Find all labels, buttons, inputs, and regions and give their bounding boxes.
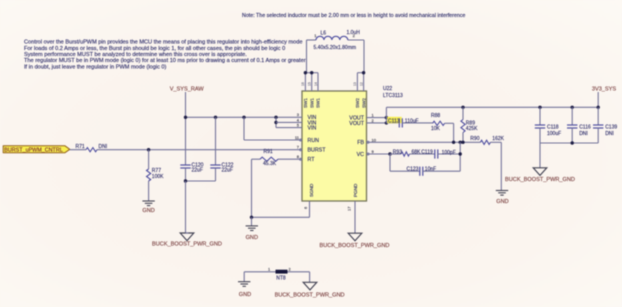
- svg-text:13: 13: [353, 82, 357, 86]
- svg-text:For loads of 0.2 Amps or less,: For loads of 0.2 Amps or less, the Burst…: [24, 46, 285, 52]
- svg-text:68K: 68K: [412, 150, 422, 156]
- svg-text:GND: GND: [246, 235, 258, 241]
- svg-text:C119: C119: [421, 150, 433, 156]
- svg-text:R77: R77: [152, 168, 161, 174]
- svg-text:162K: 162K: [492, 136, 504, 142]
- svg-text:425K: 425K: [466, 126, 478, 132]
- svg-text:DNI: DNI: [579, 131, 588, 137]
- svg-text:SW1: SW1: [309, 98, 314, 108]
- svg-text:VOUT: VOUT: [349, 121, 364, 127]
- svg-text:BUCK_BOOST_PWR_GND: BUCK_BOOST_PWR_GND: [152, 241, 222, 247]
- svg-text:SW2: SW2: [361, 98, 366, 108]
- svg-text:22uF: 22uF: [222, 168, 233, 174]
- svg-text:Note: The selected inductor mu: Note: The selected inductor must be 2.00…: [242, 13, 465, 19]
- svg-text:BUCK_BOOST_PWR_GND: BUCK_BOOST_PWR_GND: [505, 177, 575, 183]
- svg-text:14: 14: [314, 82, 318, 86]
- svg-text:5.40x5.20x1.80mm: 5.40x5.20x1.80mm: [314, 45, 357, 51]
- svg-text:RUN: RUN: [308, 138, 320, 144]
- svg-text:15: 15: [308, 82, 312, 86]
- svg-text:C118: C118: [547, 124, 559, 130]
- svg-text:BURST_uPWM_CNTRL: BURST_uPWM_CNTRL: [4, 148, 62, 154]
- svg-text:100K: 100K: [152, 174, 164, 180]
- svg-text:System performance MUST be ana: System performance MUST be analyzed to d…: [24, 52, 247, 58]
- svg-text:FB: FB: [357, 140, 364, 146]
- svg-text:PGND: PGND: [353, 183, 358, 197]
- svg-text:GND: GND: [142, 208, 154, 214]
- svg-text:BUCK_BOOST_PWR_GND: BUCK_BOOST_PWR_GND: [275, 293, 345, 299]
- svg-text:45.3K: 45.3K: [263, 161, 277, 167]
- svg-text:BUCK_BOOST_PWR_GND: BUCK_BOOST_PWR_GND: [320, 243, 390, 249]
- svg-text:GND: GND: [496, 199, 508, 205]
- svg-text:DNI: DNI: [99, 144, 108, 150]
- svg-text:Control over the Burst/uPWM pi: Control over the Burst/uPWM pin provides…: [24, 40, 302, 46]
- svg-text:GND: GND: [239, 292, 251, 298]
- svg-text:NT8: NT8: [276, 276, 286, 282]
- svg-text:12: 12: [359, 82, 363, 86]
- svg-text:17: 17: [347, 206, 352, 211]
- svg-text:VIN: VIN: [308, 126, 317, 132]
- svg-text:R90: R90: [470, 136, 479, 142]
- svg-text:C123: C123: [407, 166, 419, 172]
- svg-text:C113: C113: [388, 118, 400, 124]
- svg-text:10K: 10K: [431, 126, 441, 132]
- svg-text:C139: C139: [605, 124, 617, 130]
- svg-text:SGND: SGND: [309, 183, 314, 197]
- svg-text:U22: U22: [383, 86, 392, 92]
- svg-text:V_SYS_RAW: V_SYS_RAW: [170, 87, 205, 93]
- svg-text:VC: VC: [357, 152, 365, 158]
- svg-text:The regulator MUST be in PWM m: The regulator MUST be in PWM mode (logic…: [24, 58, 306, 64]
- svg-text:LTC3113: LTC3113: [383, 93, 403, 99]
- svg-text:10: 10: [372, 137, 377, 142]
- svg-text:R88: R88: [431, 113, 440, 119]
- svg-text:SW2: SW2: [355, 98, 360, 108]
- svg-text:R71: R71: [76, 144, 85, 150]
- svg-text:1.0uH: 1.0uH: [347, 30, 361, 36]
- svg-text:BURST: BURST: [308, 148, 327, 154]
- svg-text:100pF: 100pF: [442, 150, 456, 156]
- svg-text:C116: C116: [579, 124, 591, 130]
- svg-text:SW1: SW1: [316, 98, 321, 108]
- svg-text:SW1: SW1: [303, 98, 308, 108]
- svg-text:DNI: DNI: [605, 131, 614, 137]
- svg-text:R93: R93: [393, 150, 402, 156]
- svg-text:100uF: 100uF: [547, 131, 561, 137]
- svg-text:L6: L6: [321, 31, 327, 37]
- svg-text:RT: RT: [308, 157, 316, 163]
- svg-text:22uF: 22uF: [192, 168, 203, 174]
- svg-text:16: 16: [301, 82, 305, 86]
- svg-text:3V3_SYS: 3V3_SYS: [592, 87, 617, 93]
- svg-text:R91: R91: [264, 149, 273, 155]
- svg-text:If in doubt, just leave the re: If in doubt, just leave the regulator in…: [24, 64, 167, 70]
- svg-text:10nF: 10nF: [425, 167, 436, 173]
